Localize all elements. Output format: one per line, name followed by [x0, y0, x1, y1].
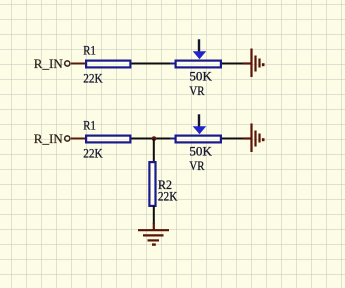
svg-text:VR: VR [189, 83, 204, 98]
wire RV1 to earth ground (top) [222, 63, 244, 65]
ground GND (bottom of R2) [138, 223, 169, 245]
wire junction down to R2 [153, 139, 155, 162]
svg-text:50K: 50K [189, 144, 212, 159]
wire RV2 to earth ground (bottom) [222, 138, 244, 140]
pin stub RV1 left (bottom, navy) [170, 138, 175, 140]
earth ground (top) [243, 49, 263, 78]
svg-text:50K: 50K [189, 69, 212, 84]
potentiometer RV2 body (bottom) [176, 136, 221, 143]
resistor R1 (bottom) body [86, 136, 130, 143]
pin circle (bottom R_IN port) [65, 136, 70, 141]
wire R1 to junction and RV1 (bottom) [132, 138, 171, 140]
earth ground (bottom) [243, 124, 263, 153]
svg-text:R1: R1 [83, 43, 96, 58]
wiper arrow stem (bottom) [198, 114, 200, 127]
wiper arrow stem (top) [198, 39, 200, 52]
junction node (red dot) [152, 136, 157, 141]
svg-text:R_IN: R_IN [34, 56, 64, 71]
pin stub RV1 left (top, navy) [170, 63, 175, 65]
wiper arrow head (bottom) [193, 126, 207, 134]
svg-text:22K: 22K [83, 70, 103, 85]
svg-text:VR: VR [189, 158, 204, 173]
potentiometer RV1 body (top) [176, 61, 221, 68]
wiper arrow head (top) [193, 51, 207, 59]
pin circle (top R_IN port) [65, 61, 70, 66]
wire R_IN pin to R1 (bottom, maroon lead) [71, 138, 86, 140]
wire R2 to ground [153, 206, 155, 224]
svg-text:R1: R1 [83, 118, 96, 133]
wire R1 to RV1 (top) [132, 63, 171, 65]
svg-text:22K: 22K [158, 189, 178, 204]
wire R_IN pin to R1 (maroon lead) [71, 63, 86, 65]
resistor R2 body (vertical) [149, 162, 155, 206]
svg-text:22K: 22K [83, 145, 103, 160]
resistor R1 (top) body [86, 61, 130, 68]
svg-text:R_IN: R_IN [34, 131, 64, 146]
